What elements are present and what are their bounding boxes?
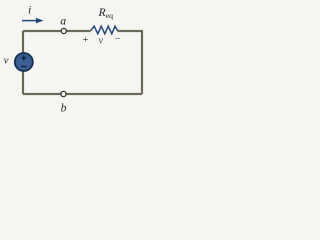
resistor Req xyxy=(91,26,118,34)
wire: terminal a to resistor xyxy=(67,30,91,32)
wire: left side (through source) xyxy=(22,31,24,94)
node b terminal xyxy=(61,91,66,96)
wire: resistor to top-right corner and down right side xyxy=(118,31,143,94)
wire: terminal b to bottom-left corner xyxy=(23,93,61,95)
svg-text:b: b xyxy=(61,100,67,114)
svg-text:+: + xyxy=(83,35,89,46)
svg-text:v: v xyxy=(99,36,104,47)
current arrow i xyxy=(22,18,43,24)
voltage source v (circle with + / -) xyxy=(15,53,33,71)
svg-text:v: v xyxy=(4,55,9,67)
wire: bottom-right segment (corner to terminal b) xyxy=(66,93,142,95)
svg-text:i: i xyxy=(28,3,31,17)
svg-text:−: − xyxy=(115,34,121,45)
background xyxy=(0,0,151,119)
node a terminal xyxy=(61,28,66,33)
svg-text:a: a xyxy=(60,14,66,28)
wire: top-left segment (corner to terminal a) xyxy=(23,30,61,32)
